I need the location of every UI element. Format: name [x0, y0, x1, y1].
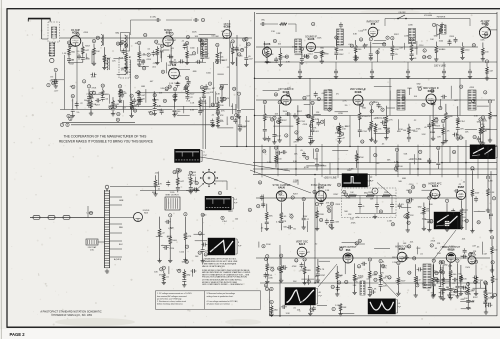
callout 21 — [279, 192, 283, 196]
wire — [273, 125, 293, 127]
callout 12 — [155, 40, 159, 44]
transformer T104 — [295, 39, 302, 53]
capacitor C232 — [417, 267, 423, 271]
waveform scope W3 sawtooth — [208, 238, 237, 255]
wire — [492, 265, 494, 297]
resistor R174 — [353, 274, 356, 281]
capacitor C134 — [202, 94, 206, 100]
callout 12 — [201, 213, 205, 217]
callout 4 — [428, 196, 431, 200]
svg-text:6CB6: 6CB6 — [224, 24, 231, 28]
capacitor C152 — [210, 119, 214, 125]
svg-text:1.5K: 1.5K — [62, 53, 67, 55]
callout 8 — [238, 53, 241, 57]
brightness contrast controls — [154, 266, 196, 287]
wire — [374, 248, 390, 250]
callout 15 — [345, 280, 349, 284]
resistor R115 — [101, 90, 104, 97]
wire — [161, 244, 170, 246]
capacitor C135 — [220, 95, 224, 101]
callout 9 — [419, 150, 422, 154]
svg-text:1.5K: 1.5K — [335, 305, 340, 307]
capacitor C183 — [316, 120, 320, 126]
wire — [217, 73, 223, 75]
capacitor C184 — [427, 123, 431, 129]
wire — [435, 42, 437, 59]
sync separator V14 — [311, 183, 341, 231]
callout 9 — [89, 91, 92, 95]
callout 31 — [376, 51, 380, 55]
svg-text:4.7K: 4.7K — [389, 119, 394, 121]
wire — [356, 243, 365, 245]
callout 35 — [429, 193, 433, 197]
wire — [482, 43, 484, 59]
callout 35 — [67, 41, 71, 45]
right edge decoupling rails — [481, 60, 499, 314]
junction — [314, 174, 315, 175]
tuner dashed enclosure — [48, 22, 60, 42]
callout 9 — [321, 120, 324, 124]
svg-text:2.2M: 2.2M — [174, 83, 179, 85]
wire — [415, 264, 417, 295]
resistor R141 — [358, 113, 361, 120]
callout 4 — [485, 60, 488, 64]
svg-text:5%: 5% — [167, 236, 170, 238]
wire — [263, 89, 280, 91]
wire — [186, 46, 188, 63]
callout 3 — [82, 80, 85, 84]
ground — [320, 59, 324, 63]
capacitor C175 — [456, 125, 460, 131]
resistor R118 — [186, 90, 189, 97]
resistor R120 — [90, 101, 93, 108]
capacitor C191 — [427, 158, 431, 164]
callout 35 — [302, 197, 306, 201]
ground — [182, 283, 186, 287]
svg-text:220K: 220K — [442, 290, 447, 292]
ground — [263, 136, 267, 140]
callout 12 — [359, 38, 363, 42]
svg-text:5%: 5% — [293, 228, 296, 230]
callout 35 — [201, 43, 205, 47]
capacitor C248 — [281, 305, 287, 309]
capacitor C209 — [445, 220, 449, 226]
callout 12 — [274, 146, 278, 150]
capacitor C197 — [166, 180, 170, 186]
ground — [316, 278, 320, 282]
ground — [406, 74, 410, 78]
wire — [85, 53, 87, 58]
capacitor C121 — [235, 46, 239, 52]
svg-text:470K: 470K — [417, 86, 422, 88]
callout 12 — [142, 67, 146, 71]
resistor R108 — [125, 53, 128, 60]
tube V106 6AU6 — [305, 36, 317, 52]
callout 8 — [337, 130, 340, 134]
svg-text:4.7K: 4.7K — [322, 53, 327, 55]
svg-text:4.7K: 4.7K — [122, 91, 127, 93]
junction — [295, 168, 296, 169]
callout 5 — [265, 287, 268, 291]
wire — [359, 104, 361, 137]
capacitor C113 — [167, 54, 173, 58]
svg-text:150V: 150V — [183, 44, 188, 46]
ground — [278, 138, 282, 142]
capacitor C211 — [454, 189, 460, 193]
callout 31 — [160, 44, 164, 48]
resistor R163 — [471, 189, 474, 196]
callout 31 — [161, 70, 165, 74]
callout 7 — [300, 301, 303, 305]
ground — [466, 305, 470, 309]
capacitor C115 — [200, 55, 204, 61]
wire — [202, 217, 204, 260]
ground — [230, 60, 234, 64]
callout 31 — [317, 97, 321, 101]
resistor R144 — [432, 119, 435, 126]
transformer T107 — [441, 25, 446, 34]
callout 12 — [472, 43, 476, 47]
resistor R173 — [336, 272, 339, 279]
callout 4 — [285, 134, 288, 138]
svg-text:470K: 470K — [346, 197, 351, 199]
wire — [306, 221, 308, 232]
capacitor C162 — [410, 52, 414, 58]
capacitor C235 — [447, 285, 451, 291]
capacitor C236 — [459, 284, 463, 290]
resistor R135 — [461, 46, 464, 53]
video IF T3 — [397, 87, 421, 110]
svg-text:68Ω: 68Ω — [461, 299, 465, 301]
ground — [441, 140, 445, 144]
callout 9 — [488, 100, 491, 104]
resistor R170 — [280, 265, 283, 272]
capacitor C186 — [368, 126, 372, 132]
capacitor C110 — [137, 57, 141, 63]
svg-text:220K: 220K — [317, 38, 322, 40]
svg-text:1.5K: 1.5K — [399, 129, 404, 131]
svg-text:6AU6: 6AU6 — [308, 37, 315, 41]
svg-text:150V: 150V — [430, 132, 435, 134]
wire — [153, 91, 155, 100]
vert osc input parts — [156, 213, 211, 264]
capacitor C193 — [281, 150, 287, 154]
capacitor C219 — [165, 220, 171, 224]
ground — [438, 295, 442, 299]
callout 8 — [307, 114, 310, 118]
capacitor C195 — [176, 185, 180, 191]
callout 7 — [54, 68, 57, 72]
capacitor C114 — [141, 59, 145, 65]
capacitor C104 — [67, 57, 71, 63]
callout 12 — [153, 93, 157, 97]
callout 3 — [192, 52, 195, 56]
callout 7 — [432, 23, 435, 27]
callout 35 — [313, 190, 317, 194]
callout 21 — [278, 101, 282, 105]
resistor R139 — [297, 117, 300, 124]
callout 21 — [265, 46, 269, 50]
callout 7 — [186, 84, 189, 88]
capacitor C256 — [406, 69, 410, 75]
callout 9 — [486, 176, 489, 180]
ground — [129, 113, 133, 117]
svg-text:2.2M: 2.2M — [398, 106, 403, 108]
wire — [339, 123, 341, 141]
wire yoke top feed — [110, 186, 160, 188]
capacitor C146 — [137, 101, 141, 107]
junction — [314, 282, 315, 283]
capacitor C130 — [139, 97, 143, 103]
wire — [477, 105, 489, 107]
video detector — [183, 71, 229, 104]
callout 4 — [370, 110, 373, 114]
waveform scope W8 parabola — [368, 299, 398, 314]
tube V103 6CB6 — [223, 23, 232, 39]
callout 7 — [266, 255, 269, 259]
callout 12 — [101, 84, 105, 88]
horiz osc V18 — [392, 243, 424, 298]
callout 8 — [430, 244, 433, 248]
capacitor C127 — [95, 98, 101, 102]
svg-text:220K: 220K — [449, 36, 454, 38]
wire — [165, 62, 167, 73]
callout 17 — [473, 135, 477, 139]
wire — [169, 218, 171, 261]
resistor R185 — [270, 306, 273, 313]
capacitor C245 — [436, 278, 440, 284]
resistor R112 — [201, 50, 204, 57]
svg-text:6AU6: 6AU6 — [278, 186, 285, 190]
callout 12 — [465, 219, 469, 223]
tube V101 6CB6 — [70, 29, 81, 46]
junction — [337, 168, 338, 169]
wire — [316, 153, 318, 171]
measurement notes list — [202, 257, 251, 286]
resistor R178 — [414, 276, 417, 283]
capacitor C143 — [391, 196, 393, 203]
callout 17 — [431, 89, 435, 93]
capacitor C163 — [440, 22, 444, 28]
ground — [278, 62, 282, 66]
callout 9 — [240, 48, 243, 52]
capacitor C167 — [311, 128, 315, 134]
wire — [304, 104, 311, 106]
callout 21 — [216, 43, 220, 47]
capacitor C228 — [379, 282, 383, 288]
callout 31 — [422, 55, 426, 59]
yoke tap wires — [110, 196, 123, 198]
wire — [209, 96, 211, 108]
resistor R125 — [217, 102, 220, 109]
capacitor C166 — [263, 127, 267, 133]
wire — [245, 42, 247, 65]
svg-text:1.5K: 1.5K — [447, 214, 452, 216]
svg-text:2.2M: 2.2M — [315, 119, 320, 121]
wire — [194, 233, 205, 235]
callout 35 — [116, 42, 120, 46]
callout 9 — [118, 85, 121, 89]
svg-text:3.3K: 3.3K — [363, 30, 368, 32]
resistor R148 — [374, 125, 377, 132]
ground — [478, 140, 482, 144]
callout 24 — [220, 87, 224, 91]
svg-text:3.3K: 3.3K — [490, 192, 495, 194]
wire — [437, 150, 439, 169]
wire — [344, 262, 346, 274]
svg-text:▲ MEASURED FROM HOT SIDE LIN: ▲ MEASURED FROM HOT SIDE LINE — [202, 260, 238, 263]
IF decoupling row — [266, 116, 497, 145]
wire vertical bottom left — [279, 245, 281, 316]
capacitor C107 — [68, 43, 72, 49]
wire ion trap — [98, 241, 105, 243]
right edge components — [470, 167, 495, 233]
tube V116 6AL5 — [296, 240, 309, 256]
capacitor C159 — [353, 55, 359, 59]
svg-text:2.2M: 2.2M — [334, 221, 339, 223]
wire — [331, 206, 333, 227]
wire — [461, 209, 468, 211]
capacitor C215 — [474, 196, 478, 202]
ground — [442, 74, 446, 78]
svg-text:68Ω: 68Ω — [105, 94, 109, 96]
pointer diagonal into filter — [377, 183, 392, 196]
callout 35 — [335, 36, 339, 40]
capacitor C132 — [173, 93, 177, 99]
callout 9 — [460, 277, 463, 281]
capacitor C122 — [54, 80, 58, 86]
resistor R186 — [339, 304, 342, 311]
svg-text:150V: 150V — [303, 216, 308, 218]
wire — [138, 45, 140, 64]
svg-text:1.5K: 1.5K — [437, 253, 442, 255]
capacitor C119 — [196, 60, 202, 64]
wire — [154, 98, 156, 114]
callout 17 — [357, 265, 361, 269]
capacitor C216 — [201, 248, 205, 254]
wire — [91, 93, 101, 95]
callout 12 — [430, 220, 434, 224]
callout 9 — [300, 47, 303, 51]
svg-text:100 V LINE: 100 V LINE — [434, 66, 446, 68]
capacitor C246 — [439, 291, 445, 295]
ground — [338, 311, 342, 315]
wire — [264, 105, 266, 139]
tube V110 6CB6 — [350, 88, 366, 105]
svg-text:470K: 470K — [292, 266, 297, 268]
wire — [170, 46, 172, 62]
wire — [183, 269, 185, 285]
svg-text:1. DC voltage measurements ar: 1. DC voltage measurements are ± 10-20% — [157, 292, 192, 295]
capacitor C145 — [87, 102, 91, 108]
callout 15 — [411, 186, 415, 190]
capacitor C133 — [185, 94, 189, 100]
callout 31 — [258, 181, 262, 185]
callout 15 — [198, 38, 202, 42]
callout 21 — [223, 97, 227, 101]
capacitor C257 — [442, 69, 446, 75]
resistor R145 — [445, 112, 448, 119]
callout 28 — [474, 280, 478, 284]
svg-text:220K: 220K — [335, 204, 340, 206]
wire ladder to focus tube — [110, 217, 134, 219]
ground — [330, 225, 334, 229]
ratio detector V7 — [334, 20, 399, 62]
callout 7 — [394, 167, 397, 171]
bus 135V line mid right — [255, 115, 498, 117]
wire — [481, 242, 483, 255]
callout 8 — [69, 117, 72, 121]
callout 7 — [386, 130, 389, 134]
ground — [335, 292, 339, 296]
svg-text:68Ω: 68Ω — [182, 262, 186, 264]
callout 7 — [235, 114, 238, 118]
callout 9 — [491, 261, 494, 265]
wire — [407, 204, 409, 230]
wire — [68, 45, 70, 63]
pointer diagonal horiz section — [433, 230, 456, 260]
capacitor C108 — [119, 41, 123, 47]
wire — [51, 79, 64, 81]
svg-text:A (9413): A (9413) — [114, 258, 122, 261]
svg-text:4.7K: 4.7K — [448, 266, 453, 268]
callout 8 — [270, 118, 273, 122]
wire — [174, 99, 176, 115]
wire — [91, 50, 93, 64]
bus left mid — [110, 106, 220, 108]
ground — [474, 291, 478, 295]
ground — [244, 62, 248, 66]
wire bottom rail right — [269, 315, 497, 317]
coil L101 — [125, 61, 128, 75]
transformer T101 — [51, 27, 57, 38]
ground — [173, 97, 177, 101]
capacitor C218 — [163, 246, 169, 250]
wire row2 plate segs — [169, 69, 190, 71]
resistor R194 — [491, 246, 494, 253]
transformer T106 — [409, 29, 416, 44]
resistor R128 — [279, 53, 282, 60]
callout 4 — [391, 36, 394, 40]
svg-text:2.2M: 2.2M — [267, 162, 272, 164]
capacitor C237 — [461, 255, 467, 259]
wire — [218, 127, 234, 129]
callout 24 — [337, 183, 341, 187]
bus +140V line upper right — [255, 77, 498, 79]
tube V117 6S4 — [339, 246, 357, 263]
wire — [308, 275, 310, 285]
ground — [489, 229, 493, 233]
svg-text:2.2M: 2.2M — [488, 180, 493, 182]
ground — [153, 192, 157, 196]
wire — [489, 214, 491, 219]
capacitor C188 — [315, 162, 319, 168]
svg-text:68Ω: 68Ω — [418, 206, 422, 208]
callout 8 — [262, 245, 265, 249]
callout 21 — [435, 271, 439, 275]
bus B+ 260V line — [253, 162, 497, 164]
callout 21 — [397, 261, 401, 265]
callout 9 — [216, 60, 219, 64]
wire — [280, 202, 282, 230]
callout 21 — [315, 149, 319, 153]
callout 4 — [271, 268, 274, 272]
wire — [414, 154, 416, 164]
svg-text:VOLUME: VOLUME — [424, 15, 433, 17]
wire — [432, 125, 434, 132]
svg-text:3.3K: 3.3K — [480, 39, 485, 41]
page border top — [7, 8, 500, 10]
